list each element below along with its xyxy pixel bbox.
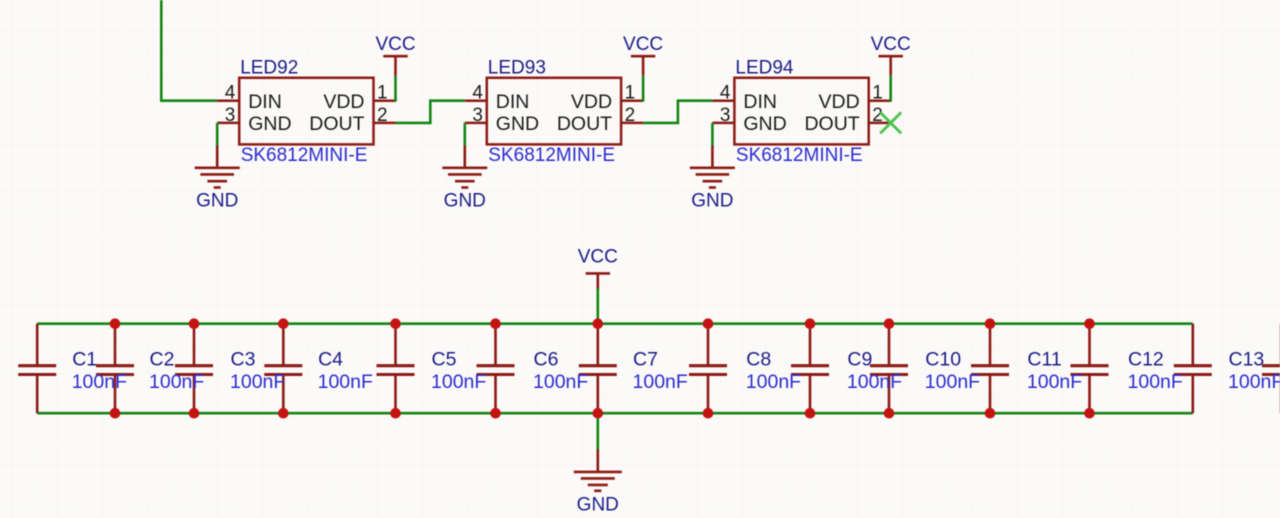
capacitor C13 (1262, 324, 1280, 414)
junction dot bottom rail x=1089.5 (1084, 408, 1095, 419)
capacitor C10 (971, 324, 1009, 414)
LED92 value SK6812MINI-E (241, 145, 368, 166)
svg-text:C13: C13 (1229, 348, 1265, 370)
svg-text:LED92: LED92 (240, 57, 298, 78)
label C8 value 100nF (746, 371, 801, 393)
svg-text:100nF: 100nF (1128, 371, 1183, 393)
junction dot top rail x=889 (884, 318, 895, 329)
label C11 value 100nF (1027, 371, 1082, 393)
wire LED94 pin 3 to ground (711, 123, 714, 147)
wire VCC symbol to LED92 pin 1 (394, 76, 397, 102)
wire bottom rail to ground (596, 413, 599, 450)
svg-text:DOUT: DOUT (557, 113, 612, 135)
svg-text:VCC: VCC (871, 34, 911, 55)
svg-text:2: 2 (625, 105, 636, 126)
LED94 pin 3 GND (712, 105, 786, 135)
svg-text:DIN: DIN (496, 91, 530, 113)
junction dot top rail x=810 (805, 318, 816, 329)
LED component LED94 body (SK6812MINI-E) (734, 78, 868, 145)
svg-text:100nF: 100nF (633, 371, 688, 393)
svg-text:DIN: DIN (248, 91, 282, 113)
label C12 value 100nF (1128, 371, 1183, 393)
svg-text:VCC: VCC (578, 246, 618, 267)
capacitor C4 (377, 324, 415, 414)
svg-text:GND: GND (444, 191, 486, 212)
junction dot top rail x=495.5 (490, 318, 501, 329)
label C6 value 100nF (533, 371, 588, 393)
label C7 designator (633, 348, 658, 370)
svg-text:GND: GND (248, 113, 291, 135)
svg-text:1: 1 (872, 83, 883, 104)
VCC power symbol at LED93 pin 1 (623, 34, 663, 76)
label C1 designator (72, 348, 97, 370)
label C13 designator (1229, 348, 1265, 370)
junction dot bottom rail x=115 (110, 408, 121, 419)
LED component LED92 body (SK6812MINI-E) (239, 78, 373, 145)
wire VCC rail (top bus) (37, 322, 1193, 325)
label C3 designator (231, 348, 256, 370)
capacitor C1 (96, 324, 134, 414)
junction dot bottom rail x=283.3 (278, 408, 289, 419)
junction dot top rail x=597.8 (593, 318, 604, 329)
junction dot top rail x=708 (703, 318, 714, 329)
svg-text:C2: C2 (150, 348, 175, 370)
junction dot top rail x=194 (189, 318, 200, 329)
svg-text:GND: GND (691, 191, 733, 212)
ground symbol at LED94 (690, 146, 735, 212)
VCC power symbol above capacitor bank (578, 246, 618, 288)
svg-text:C12: C12 (1128, 348, 1164, 370)
svg-text:1: 1 (625, 83, 636, 104)
capacitor C6 (579, 324, 617, 414)
svg-text:100nF: 100nF (1228, 371, 1280, 393)
label C5 value 100nF (431, 371, 486, 393)
label C7 value 100nF (633, 371, 688, 393)
svg-text:GND: GND (743, 113, 786, 135)
junction dot bottom rail x=495.5 (490, 408, 501, 419)
svg-text:3: 3 (720, 105, 731, 126)
junction dot top rail x=990 (985, 318, 996, 329)
junction dot bottom rail x=395.5 (390, 408, 401, 419)
label C5 designator (432, 348, 457, 370)
svg-text:C1: C1 (72, 348, 97, 370)
label C9 designator (847, 348, 872, 370)
LED93 reference designator (488, 57, 546, 78)
ground symbol at LED93 (442, 146, 487, 212)
svg-text:1: 1 (377, 83, 388, 104)
VCC power symbol at LED92 pin 1 (375, 34, 415, 76)
wire VCC symbol to LED93 pin 1 (642, 76, 645, 102)
label C2 value 100nF (149, 371, 204, 393)
label C3 value 100nF (230, 371, 285, 393)
label C4 value 100nF (318, 371, 373, 393)
svg-text:C11: C11 (1027, 348, 1061, 370)
junction dot top rail x=283.3 (278, 318, 289, 329)
svg-text:DIN: DIN (743, 91, 777, 113)
svg-text:LED93: LED93 (488, 57, 546, 78)
svg-text:VDD: VDD (819, 91, 860, 113)
svg-text:VCC: VCC (375, 34, 415, 55)
junction dot bottom rail x=889 (884, 408, 895, 419)
svg-text:100nF: 100nF (431, 371, 486, 393)
svg-text:100nF: 100nF (533, 371, 588, 393)
LED component LED93 body (SK6812MINI-E) (487, 78, 621, 145)
svg-text:4: 4 (720, 83, 731, 104)
junction dot bottom rail x=597.8 (593, 408, 604, 419)
svg-text:VDD: VDD (571, 91, 612, 113)
wire LED93 DOUT to LED94 DIN (643, 101, 712, 123)
junction dot top rail x=395.5 (390, 318, 401, 329)
LED94 pin 1 VDD (819, 83, 891, 113)
wire LED92 pin 3 to ground (216, 123, 219, 147)
LED92 pin 1 VDD (323, 83, 395, 113)
no-connect flag on LED94 DOUT (880, 112, 901, 133)
capacitor C8 (791, 324, 829, 414)
svg-text:LED94: LED94 (735, 57, 794, 78)
svg-text:4: 4 (225, 83, 236, 104)
svg-text:C10: C10 (925, 348, 961, 370)
svg-text:C6: C6 (534, 348, 559, 370)
ground symbol below capacitor bank (574, 450, 622, 516)
svg-text:100nF: 100nF (230, 371, 285, 393)
svg-text:SK6812MINI-E: SK6812MINI-E (736, 145, 863, 166)
LED93 pin 4 DIN (465, 83, 530, 113)
capacitor C9 (870, 324, 908, 414)
wire VCC symbol to top rail (596, 289, 599, 324)
wire VCC symbol to LED94 pin 1 (889, 76, 892, 102)
svg-text:C5: C5 (432, 348, 457, 370)
svg-text:100nF: 100nF (72, 371, 127, 393)
svg-text:VCC: VCC (623, 34, 663, 55)
svg-text:100nF: 100nF (1027, 371, 1082, 393)
wire GND rail (bottom bus) (37, 412, 1193, 415)
svg-text:4: 4 (472, 83, 483, 104)
capacitor C2 (175, 324, 213, 414)
capacitor C0 (partial, off-screen label) (18, 324, 56, 414)
svg-text:C8: C8 (746, 348, 771, 370)
LED94 reference designator (735, 57, 794, 78)
svg-text:GND: GND (496, 113, 539, 135)
LED94 pin 2 DOUT (804, 105, 890, 135)
label C9 value 100nF (847, 371, 902, 393)
capacitor C11 (1071, 324, 1109, 414)
label C6 designator (534, 348, 559, 370)
LED92 reference designator (240, 57, 298, 78)
wire LED93 pin 3 to ground (463, 123, 466, 147)
svg-text:100nF: 100nF (149, 371, 204, 393)
VCC power symbol at LED94 pin 1 (871, 34, 911, 76)
junction dot top rail x=115 (110, 318, 121, 329)
svg-text:GND: GND (577, 495, 619, 516)
junction dot bottom rail x=990 (985, 408, 996, 419)
svg-text:100nF: 100nF (746, 371, 801, 393)
svg-text:100nF: 100nF (847, 371, 902, 393)
label C1 value 100nF (72, 371, 127, 393)
LED93 value SK6812MINI-E (488, 145, 615, 166)
LED94 value SK6812MINI-E (736, 145, 863, 166)
svg-text:C3: C3 (231, 348, 256, 370)
ground symbol at LED92 (195, 146, 240, 212)
wire LED92 DOUT to LED93 DIN (396, 101, 465, 123)
capacitor C5 (477, 324, 515, 414)
capacitor C12 (1174, 324, 1212, 414)
svg-text:2: 2 (377, 105, 388, 126)
LED92 pin 2 DOUT (309, 105, 395, 135)
svg-text:SK6812MINI-E: SK6812MINI-E (488, 145, 615, 166)
LED92 pin 4 DIN (217, 83, 282, 113)
svg-text:100nF: 100nF (925, 371, 980, 393)
LED92 pin 3 GND (217, 105, 291, 135)
junction dot top rail x=1089.5 (1084, 318, 1095, 329)
junction dot bottom rail x=810 (805, 408, 816, 419)
LED93 pin 3 GND (465, 105, 539, 135)
label C12 designator (1128, 348, 1164, 370)
svg-text:100nF: 100nF (318, 371, 373, 393)
junction dot bottom rail x=708 (703, 408, 714, 419)
LED94 pin 4 DIN (712, 83, 777, 113)
label C10 designator (925, 348, 961, 370)
label C2 designator (150, 348, 175, 370)
svg-text:3: 3 (472, 105, 483, 126)
label C8 designator (746, 348, 771, 370)
capacitor C3 (264, 324, 302, 414)
svg-text:C9: C9 (847, 348, 872, 370)
svg-text:SK6812MINI-E: SK6812MINI-E (241, 145, 368, 166)
svg-text:DOUT: DOUT (309, 113, 364, 135)
label C4 designator (318, 348, 343, 370)
label C10 value 100nF (925, 371, 980, 393)
label C13 value 100nF (1228, 371, 1280, 393)
junction dot bottom rail x=194 (189, 408, 200, 419)
svg-text:DOUT: DOUT (804, 113, 859, 135)
svg-text:C7: C7 (633, 348, 658, 370)
wire from off-screen top to LED92 DIN (161, 0, 217, 101)
label C11 designator (1027, 348, 1061, 370)
svg-text:VDD: VDD (323, 91, 364, 113)
svg-text:GND: GND (196, 191, 238, 212)
LED93 pin 1 VDD (571, 83, 643, 113)
svg-text:3: 3 (225, 105, 236, 126)
svg-text:C4: C4 (318, 348, 343, 370)
LED93 pin 2 DOUT (557, 105, 643, 135)
capacitor C7 (689, 324, 727, 414)
